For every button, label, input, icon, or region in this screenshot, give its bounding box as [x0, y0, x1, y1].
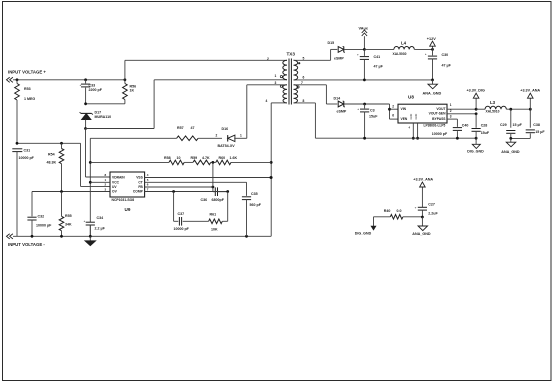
svg-text:U8: U8 — [408, 94, 414, 99]
svg-text:10000 pF: 10000 pF — [174, 227, 190, 231]
svg-text:R57: R57 — [177, 126, 184, 130]
svg-text:U9: U9 — [125, 207, 131, 212]
svg-text:47 µF: 47 µF — [374, 64, 384, 68]
svg-text:C33: C33 — [89, 84, 96, 88]
wire UV sense node — [16, 142, 110, 186]
transformer TX3 secondary winding pins 5-6 — [294, 56, 305, 80]
svg-text:+3.3V_ANA: +3.3V_ANA — [520, 89, 540, 93]
svg-text:3: 3 — [450, 114, 452, 118]
svg-text:+: + — [357, 107, 359, 111]
resistor R40 — [374, 209, 424, 219]
resistor R56 — [123, 80, 136, 104]
svg-text:OV: OV — [112, 190, 118, 194]
transformer TX3 label — [287, 51, 296, 56]
wire U8 VOUT pin1 — [447, 103, 478, 110]
svg-text:UV: UV — [112, 185, 117, 189]
svg-text:C27: C27 — [428, 202, 435, 206]
svg-text:1.6K: 1.6K — [230, 156, 238, 160]
regulator U8 LP38691 — [398, 94, 447, 127]
svg-text:15uF: 15uF — [481, 131, 490, 135]
svg-text:TX3: TX3 — [287, 51, 296, 56]
resistor R61 — [209, 192, 228, 232]
op-amp U9 NCP1031-SO8 controller — [105, 172, 149, 212]
wire TX3 pin3 to D16 cathode — [247, 85, 287, 139]
wire TX3 pin6 return — [294, 79, 434, 82]
svg-text:VSS: VSS — [136, 175, 143, 179]
svg-text:1 MEG: 1 MEG — [24, 97, 35, 101]
svg-text:C40: C40 — [462, 124, 469, 128]
capacitor C35 — [242, 182, 262, 236]
capacitor C40 — [432, 124, 469, 139]
svg-text:+: + — [357, 52, 359, 56]
svg-text:eSMP: eSMP — [337, 110, 347, 114]
svg-text:D16: D16 — [222, 127, 229, 131]
wire to U8 VIN/VEN — [388, 104, 398, 119]
svg-text:VEN: VEN — [401, 117, 408, 121]
svg-text:VDRAIN: VDRAIN — [112, 175, 125, 179]
svg-text:VCC: VCC — [112, 180, 120, 184]
wire U9 VCC pin — [90, 181, 110, 183]
wire U9 FB line — [145, 186, 215, 189]
capacitor C33 — [80, 80, 103, 104]
ground (earth) below input- rail — [85, 236, 96, 245]
svg-text:C41: C41 — [374, 55, 381, 59]
svg-text:D14: D14 — [334, 96, 341, 100]
svg-text:0.0: 0.0 — [397, 209, 402, 213]
svg-text:L4: L4 — [401, 40, 407, 45]
svg-text:+12V: +12V — [427, 37, 436, 41]
svg-text:COMP: COMP — [133, 190, 144, 194]
transformer TX3 primary winding pins 2-1 — [267, 57, 287, 79]
svg-text:CT: CT — [138, 180, 142, 184]
svg-text:560 pF: 560 pF — [250, 203, 262, 207]
svg-text:XAL5010: XAL5010 — [486, 110, 500, 114]
svg-text:1K: 1K — [130, 89, 135, 93]
svg-text:C32: C32 — [38, 214, 45, 218]
svg-text:ANA_GND: ANA_GND — [412, 232, 431, 236]
svg-text:1: 1 — [450, 103, 452, 107]
svg-text:47: 47 — [191, 126, 195, 130]
wire TX3 pin5 to D15 — [294, 49, 338, 60]
resistor R58 — [90, 156, 184, 165]
svg-text:15uF: 15uF — [369, 115, 378, 119]
svg-text:C29: C29 — [500, 123, 507, 127]
capacitor C34 — [84, 216, 106, 236]
capacitor C29 — [500, 109, 523, 138]
inductor L4 — [364, 40, 432, 56]
wire L3 output junctions — [509, 108, 531, 111]
svg-text:15 µF: 15 µF — [513, 123, 523, 127]
svg-text:6: 6 — [392, 114, 394, 118]
capacitor C31 — [12, 149, 34, 237]
svg-text:C38: C38 — [533, 123, 540, 127]
svg-text:10000 pF: 10000 pF — [19, 156, 35, 160]
svg-text:VAux: VAux — [359, 26, 369, 30]
node +3.3V_ANA power symbol — [520, 89, 540, 110]
svg-text:2200 pF: 2200 pF — [89, 88, 103, 92]
resistor R57 — [90, 126, 222, 141]
svg-text:R55: R55 — [65, 214, 72, 218]
wire junction dots on + rail — [16, 78, 127, 81]
wire input- rail — [13, 235, 271, 238]
wire U9 CT line — [145, 181, 247, 183]
wire TX3 pin7 to D14 — [294, 85, 338, 104]
svg-text:+: + — [84, 219, 86, 223]
svg-text:MURA110: MURA110 — [95, 115, 112, 119]
svg-text:GND: GND — [409, 114, 413, 120]
svg-text:10000 pF: 10000 pF — [36, 223, 52, 227]
svg-text:VIN: VIN — [401, 107, 407, 111]
svg-text:BAT54-XV: BAT54-XV — [218, 144, 236, 148]
svg-text:2: 2 — [450, 109, 452, 113]
svg-text:INPUT VOLTAGE -: INPUT VOLTAGE - — [8, 242, 45, 247]
wire junction dots on primary return — [270, 161, 273, 179]
ground ANA_GND below C27 — [412, 217, 431, 236]
svg-text:10: 10 — [177, 156, 181, 160]
svg-text:C3: C3 — [370, 108, 375, 112]
wire U8 VOUT-SEN pin2 — [447, 109, 478, 115]
ground ANA_GND below C29 — [501, 138, 520, 154]
wire U8 BYPASS pin3 — [447, 114, 457, 127]
wire U9 COMP line — [145, 190, 230, 193]
svg-text:10K: 10K — [211, 228, 218, 232]
svg-text:R58: R58 — [164, 156, 171, 160]
svg-text:R61: R61 — [210, 213, 217, 217]
svg-text:ANA_GND: ANA_GND — [423, 92, 442, 96]
wire OV line — [32, 190, 110, 193]
capacitor C36 — [201, 187, 228, 202]
wire FB to divider tap — [212, 162, 214, 191]
diode D16 BAT54-XV — [216, 127, 247, 148]
wire secondary ground rail — [294, 103, 478, 140]
wire U8 ground pins — [409, 123, 420, 140]
diode D14 eSMP — [334, 96, 390, 113]
diode D17 MURA110 (zener) — [80, 111, 111, 129]
resistor R59 — [184, 156, 216, 165]
wire VAux junction dot — [363, 48, 366, 51]
svg-text:DIG_GND: DIG_GND — [467, 150, 484, 154]
svg-text:DIG_GND: DIG_GND — [355, 231, 372, 235]
svg-text:INPUT VOLTAGE +: INPUT VOLTAGE + — [8, 69, 46, 74]
svg-text:48.3K: 48.3K — [47, 161, 57, 165]
svg-text:NCP1031-SO8: NCP1031-SO8 — [112, 198, 135, 202]
transformer TX3 secondary winding pins 7-8 — [294, 81, 305, 103]
node INPUT VOLTAGE - (off-page connector) — [7, 234, 46, 247]
capacitor C38 — [526, 109, 546, 138]
capacitor C27 — [415, 202, 439, 217]
resistor R55 — [59, 192, 72, 237]
svg-text:C31: C31 — [24, 149, 31, 153]
ground DIG_GND left of R40 — [355, 217, 376, 236]
svg-text:C36: C36 — [201, 198, 208, 202]
svg-text:4.7K: 4.7K — [202, 156, 210, 160]
svg-text:2.2uF: 2.2uF — [428, 212, 438, 216]
svg-text:34K: 34K — [65, 223, 72, 227]
wire VCC column — [89, 138, 92, 236]
svg-text:+: + — [425, 52, 427, 56]
svg-text:2: 2 — [216, 134, 218, 138]
svg-text:1: 1 — [275, 74, 277, 78]
svg-text:C34: C34 — [97, 216, 104, 220]
svg-text:47 µF: 47 µF — [442, 64, 452, 68]
node INPUT VOLTAGE + (off-page connector) — [7, 69, 47, 82]
svg-text:D15: D15 — [328, 41, 335, 45]
svg-text:10000 pF: 10000 pF — [432, 132, 448, 136]
capacitor C30 — [425, 49, 452, 79]
node +12V power symbol — [427, 37, 436, 51]
svg-text:5: 5 — [303, 56, 305, 60]
node +3.3V_ANA power symbol bottom — [413, 178, 433, 208]
svg-text:+3.3V_ANA: +3.3V_ANA — [413, 178, 433, 182]
capacitor C28 — [472, 114, 490, 138]
svg-text:C28: C28 — [481, 123, 488, 127]
svg-text:6800pF: 6800pF — [212, 198, 225, 202]
svg-text:4: 4 — [266, 99, 268, 103]
svg-text:R53: R53 — [24, 87, 31, 91]
ground ANA_GND below C30 — [423, 80, 442, 96]
svg-text:ANA_GND: ANA_GND — [501, 150, 520, 154]
svg-text:R54: R54 — [48, 153, 55, 157]
svg-text:8: 8 — [303, 99, 305, 103]
svg-text:R60: R60 — [219, 156, 226, 160]
ground DIG_GND below C28 — [467, 138, 484, 153]
svg-text:+3.3V_DIG: +3.3V_DIG — [467, 89, 485, 93]
svg-text:1: 1 — [240, 134, 242, 138]
capacitor C37 — [174, 192, 209, 232]
svg-text:+: + — [80, 83, 82, 87]
wire TX3 pin4 to primary return — [271, 103, 287, 236]
svg-text:2.2 µF: 2.2 µF — [95, 227, 106, 231]
wire input+ rail — [13, 79, 125, 81]
resistor R54 — [47, 143, 64, 191]
wire V+ to TX3 pin2 — [125, 60, 287, 79]
resistor R53 — [15, 80, 36, 144]
svg-text:GND: GND — [414, 114, 418, 120]
svg-text:VOUT-SEN: VOUT-SEN — [429, 112, 446, 116]
svg-text:C35: C35 — [251, 192, 258, 196]
node +3.3V_DIG power symbol — [467, 89, 485, 110]
wire drain net (TX3 pin1 to U9 VDRAIN) — [84, 80, 287, 177]
svg-text:C30: C30 — [442, 53, 449, 57]
svg-text:6: 6 — [303, 75, 305, 79]
resistor R60 — [212, 156, 272, 165]
svg-text:15 µF: 15 µF — [535, 130, 545, 134]
svg-text:R40: R40 — [384, 209, 391, 213]
svg-text:C37: C37 — [178, 212, 185, 216]
wire clamp node — [84, 102, 125, 105]
transformer TX3 core — [289, 59, 291, 105]
transformer TX3 aux winding pins 3-4 — [266, 81, 288, 103]
inductor L3 — [476, 100, 530, 113]
svg-text:R59: R59 — [191, 156, 198, 160]
svg-text:VOUT: VOUT — [436, 107, 445, 111]
wire analog ground rail — [509, 137, 530, 140]
svg-text:2: 2 — [267, 57, 269, 61]
node VAux power symbol — [359, 26, 369, 49]
svg-text:LP38691-LLP5: LP38691-LLP5 — [424, 124, 446, 128]
svg-text:XAL5030: XAL5030 — [393, 52, 407, 56]
capacitor C3 — [357, 103, 378, 139]
svg-text:FB: FB — [138, 185, 143, 189]
svg-text:+: + — [415, 206, 417, 210]
wire U9 VSS line — [145, 176, 273, 179]
capacitor C41 — [357, 49, 384, 80]
svg-text:2: 2 — [392, 104, 394, 108]
capacitor C32 — [27, 192, 52, 237]
svg-text:L3: L3 — [490, 100, 496, 105]
svg-text:BYPASS: BYPASS — [432, 117, 446, 121]
diode D15 eSMP — [328, 41, 365, 61]
svg-text:eSMP: eSMP — [334, 57, 344, 61]
